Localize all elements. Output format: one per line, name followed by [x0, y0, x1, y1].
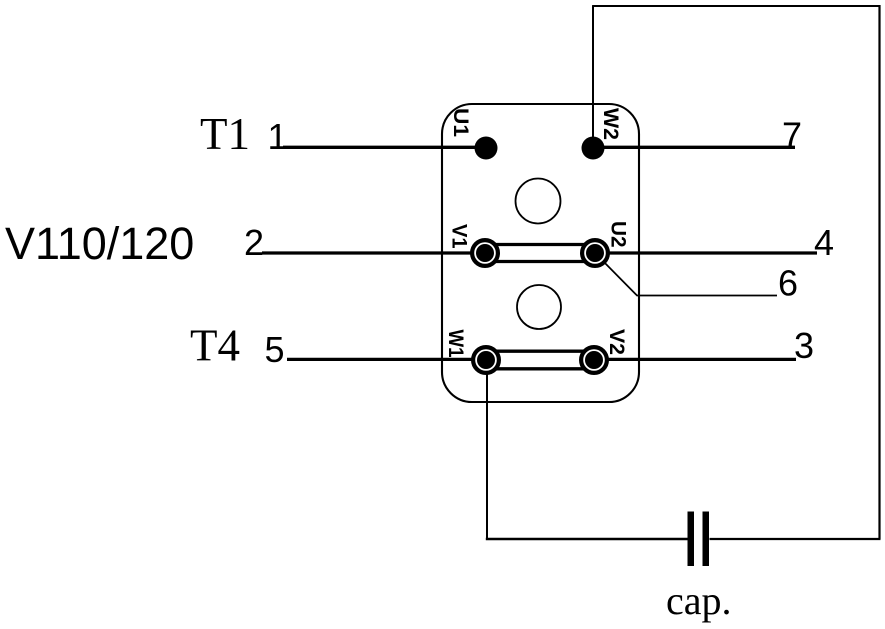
terminal U1	[475, 137, 498, 160]
svg-text:7: 7	[782, 115, 802, 156]
wire from W2 up to top rail	[592, 6, 594, 148]
terminal W1 (ring)	[473, 347, 499, 373]
svg-text:V1: V1	[448, 224, 471, 249]
svg-text:2: 2	[244, 222, 264, 263]
terminal V1 (ring)	[472, 240, 498, 266]
jumper bar V1-U2	[485, 243, 595, 246]
svg-text:5: 5	[265, 329, 285, 370]
capacitor left plate	[688, 512, 695, 567]
wire 5 (left, to W1)	[287, 358, 486, 361]
svg-text:4: 4	[814, 222, 834, 263]
wire right rail down to capacitor	[878, 5, 880, 539]
terminal V2 (ring)	[581, 347, 607, 373]
svg-text:V110/120: V110/120	[5, 218, 194, 269]
svg-text:W2: W2	[599, 108, 622, 140]
svg-text:3: 3	[794, 325, 814, 366]
svg-text:T4: T4	[190, 321, 240, 371]
wire from W1 down	[486, 360, 488, 540]
capacitor right plate	[703, 512, 710, 567]
mounting hole top	[516, 179, 561, 224]
svg-text:6: 6	[778, 263, 798, 304]
terminal U2 (ring)	[582, 240, 608, 266]
wire 1 (left, to U1)	[283, 146, 486, 149]
svg-text:1: 1	[268, 116, 288, 157]
svg-text:U2: U2	[607, 221, 630, 248]
mounting hole bottom	[517, 285, 561, 329]
wire top rail	[592, 5, 880, 7]
svg-text:U1: U1	[449, 108, 472, 137]
wire 3 (V2 to right)	[594, 358, 796, 361]
jumper bar W1-V2	[486, 350, 594, 353]
svg-text:cap.: cap.	[666, 578, 732, 623]
wire 2 (left, to V1)	[262, 251, 485, 254]
wire from W1 drop to capacitor left plate	[486, 538, 688, 540]
wire 6 (tap from U2)	[598, 256, 777, 296]
svg-text:T1: T1	[200, 109, 250, 159]
wire from right rail to capacitor right plate	[710, 538, 881, 540]
svg-text:V2: V2	[605, 329, 628, 355]
terminal W2	[582, 137, 605, 160]
terminal block body	[442, 104, 639, 402]
wire 7 (W2 to right)	[593, 146, 795, 149]
wire 4 (U2 to right)	[595, 251, 817, 254]
svg-text:W1: W1	[444, 330, 467, 358]
